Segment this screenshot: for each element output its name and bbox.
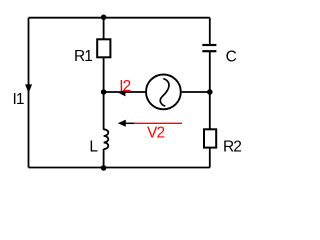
wire R1 branch upper [103, 18, 105, 40]
node dot bottom [101, 165, 107, 171]
wire R1 branch lower [103, 57, 105, 92]
svg-text:L: L [89, 139, 98, 156]
current arrow I2 [118, 90, 126, 97]
wire right middle [209, 52, 211, 129]
voltage arrow V2 black head [118, 120, 126, 127]
svg-text:R1: R1 [74, 48, 92, 65]
resistor R2 [204, 129, 216, 147]
svg-text:R2: R2 [223, 139, 241, 156]
wire bottom [29, 167, 210, 169]
wire right lower [209, 148, 211, 168]
svg-text:V2: V2 [147, 125, 164, 142]
wire left [28, 18, 30, 168]
voltage arrow V2 black tail [125, 122, 135, 124]
wire L branch lower [103, 149, 105, 168]
svg-text:C: C [226, 49, 237, 66]
resistor R1 [97, 39, 110, 57]
inductor L [104, 129, 109, 149]
wire right upper [209, 18, 211, 45]
current arrow I1 [25, 84, 32, 93]
sine symbol [160, 79, 169, 107]
capacitor C [202, 45, 216, 51]
node dot right [207, 89, 213, 95]
wire top [29, 17, 210, 19]
svg-text:I1: I1 [13, 91, 24, 108]
node dot middle [101, 89, 107, 95]
svg-text:I2: I2 [119, 78, 130, 95]
ac source U1 [146, 75, 181, 110]
wire middle right [182, 91, 210, 93]
voltage arrow V2 red line [134, 122, 183, 124]
node dot top [101, 14, 107, 20]
wire middle left [104, 91, 146, 93]
wire L branch upper [103, 92, 105, 130]
